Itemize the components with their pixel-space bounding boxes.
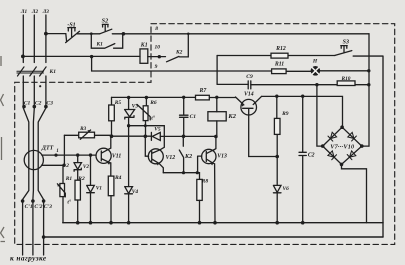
node V11 collector bbox=[110, 134, 114, 138]
svg-text:R5: R5 bbox=[114, 100, 122, 106]
svg-text:V4: V4 bbox=[132, 189, 139, 195]
node rail V4 bbox=[127, 221, 131, 225]
svg-text:Л1: Л1 bbox=[20, 9, 28, 15]
resistor R12 bbox=[271, 53, 288, 58]
svg-text:R7: R7 bbox=[199, 88, 208, 94]
wire return rail to C'3 bbox=[44, 236, 383, 238]
node bridge left bbox=[321, 144, 325, 148]
node V12 base bbox=[144, 135, 148, 139]
wire common bottom rail bbox=[63, 222, 383, 224]
node K1-holding right bbox=[122, 32, 126, 36]
resistor R8 bbox=[197, 179, 202, 200]
transistor V12 bbox=[148, 149, 163, 164]
svg-text:R8: R8 bbox=[201, 178, 209, 184]
node C2 top bbox=[301, 95, 304, 98]
svg-text:К2: К2 bbox=[184, 154, 192, 160]
node V13 base bbox=[196, 171, 199, 174]
right vertical x=368.5 bbox=[368, 34, 370, 146]
node K1-coil / K2-aux bbox=[158, 55, 161, 58]
node C1 top bbox=[182, 96, 185, 99]
diode V1 bbox=[87, 155, 95, 223]
S3 NO pushbutton bbox=[335, 46, 352, 56]
svg-text:R3: R3 bbox=[80, 126, 86, 132]
svg-text:С'2: С'2 bbox=[34, 204, 42, 210]
svg-text:К1: К1 bbox=[140, 42, 148, 48]
node K2 contact bottom bbox=[182, 171, 185, 174]
svg-text:V6: V6 bbox=[283, 186, 290, 192]
svg-text:R6: R6 bbox=[149, 100, 157, 106]
svg-text:R11: R11 bbox=[274, 62, 284, 68]
diode V6 bbox=[273, 157, 281, 223]
contactor K1 blades bbox=[18, 67, 47, 76]
lamp H bbox=[311, 66, 321, 76]
resistor R5 bbox=[111, 97, 113, 136]
svg-text:С1: С1 bbox=[24, 100, 31, 106]
node R6 bottom cross bbox=[144, 124, 147, 127]
svg-text:V7···V10: V7···V10 bbox=[330, 143, 354, 150]
line L1 bbox=[23, 15, 29, 255]
resistor R10 bbox=[337, 81, 355, 86]
node V14 base / R9 / V6 bbox=[275, 155, 279, 159]
node R6 top bbox=[145, 96, 148, 99]
node R9 top bbox=[275, 95, 278, 98]
node rail V13 emitter bbox=[213, 221, 217, 225]
svg-text:Н: Н bbox=[312, 58, 318, 64]
svg-text:V2: V2 bbox=[83, 164, 89, 170]
bridge left link bbox=[317, 85, 323, 146]
R3 left drop to terminal 2 bbox=[63, 135, 65, 165]
contact K2 mid bbox=[179, 136, 183, 172]
svg-text:1: 1 bbox=[56, 149, 59, 154]
node L3 tap bbox=[44, 32, 48, 36]
transistor V11 bbox=[96, 148, 111, 163]
node A link bbox=[129, 126, 165, 150]
contact K2 aux bbox=[167, 34, 189, 62]
resistor R7 bbox=[196, 95, 210, 100]
node R10 wire end bbox=[367, 83, 370, 86]
diode bridge V7..V10 bbox=[323, 127, 362, 164]
S2 NO pushbutton bbox=[100, 24, 112, 33]
node C9 wire / bridge link bbox=[315, 83, 318, 86]
svg-text:С1: С1 bbox=[190, 114, 197, 120]
relay coil K2 bbox=[216, 97, 218, 136]
node V3 top bbox=[127, 96, 130, 99]
svg-text:R1: R1 bbox=[65, 176, 73, 182]
svg-text:ДТТ: ДТТ bbox=[41, 145, 54, 151]
relay coil K1 bbox=[140, 49, 148, 63]
svg-text:Л3: Л3 bbox=[42, 9, 50, 15]
svg-text:V12: V12 bbox=[166, 155, 176, 161]
svg-text:V14: V14 bbox=[244, 91, 254, 97]
node bridge right bbox=[360, 144, 364, 148]
node rail V6 bbox=[275, 221, 279, 225]
node K1-holding left bbox=[90, 32, 93, 35]
rheostat R3 bbox=[64, 134, 111, 136]
wire 8 row to R12,S3 bbox=[217, 55, 335, 57]
svg-text:С2: С2 bbox=[308, 153, 315, 159]
svg-text:2: 2 bbox=[65, 163, 69, 169]
rheostat R6 bbox=[145, 98, 148, 137]
vertical x=217 link bbox=[216, 56, 218, 85]
svg-text:R12: R12 bbox=[275, 46, 286, 52]
node rail2 C'3 bbox=[42, 235, 46, 239]
svg-text:-S1: -S1 bbox=[67, 23, 75, 29]
wire 9 branch bbox=[92, 57, 369, 72]
speck artifact bbox=[39, 85, 41, 87]
svg-text:К1: К1 bbox=[95, 42, 103, 48]
top rail y=97.4 bbox=[112, 96, 236, 98]
svg-text:10: 10 bbox=[154, 45, 160, 51]
node bridge bottom bbox=[340, 163, 344, 167]
node K2-coil top bbox=[215, 96, 218, 99]
node rail V1 bbox=[89, 221, 93, 225]
svg-text:V13: V13 bbox=[217, 154, 227, 160]
node rail R2 bbox=[76, 221, 80, 225]
svg-text:V1: V1 bbox=[96, 186, 103, 192]
svg-text:к нагрузке: к нагрузке bbox=[10, 253, 47, 262]
bridge diode TL bbox=[328, 132, 337, 141]
node V2 top bbox=[76, 153, 79, 156]
transistor V13 bbox=[202, 149, 216, 163]
V4 line with diode bbox=[125, 125, 133, 222]
line L3 bbox=[38, 15, 46, 255]
svg-text:К1: К1 bbox=[49, 69, 57, 75]
dashed enclosure boundary bbox=[15, 24, 395, 245]
capacitor C9 bbox=[248, 81, 251, 89]
zener V2 bbox=[74, 155, 82, 180]
bridge diode BR bbox=[347, 151, 356, 160]
wire2 from DTT bbox=[42, 164, 65, 166]
zener V3 bbox=[125, 98, 135, 126]
svg-text:R9: R9 bbox=[281, 111, 289, 117]
node rail R8 bbox=[198, 221, 202, 225]
svg-text:С9: С9 bbox=[246, 74, 253, 80]
capacitor C2 bbox=[299, 96, 306, 223]
left edge scan artifacts bbox=[1, 56, 6, 242]
node bridge top bbox=[340, 125, 344, 129]
bridge diode BL bbox=[328, 151, 337, 160]
node L1 tap bbox=[21, 55, 25, 59]
K2 coil to V13 collector bbox=[214, 137, 216, 150]
svg-text:S3: S3 bbox=[343, 40, 349, 46]
svg-text:С'1: С'1 bbox=[25, 204, 33, 210]
resistor R11 bbox=[272, 69, 287, 74]
S1 NC pushbutton bbox=[66, 28, 80, 43]
svg-text:С'3: С'3 bbox=[44, 204, 52, 210]
bridge diode TR bbox=[348, 132, 357, 141]
node C'1 bbox=[21, 199, 25, 203]
node C1 cap tap bbox=[22, 105, 26, 109]
node wire-9 tap bbox=[90, 55, 93, 58]
svg-text:V3: V3 bbox=[132, 103, 139, 109]
K1 holding contact branch bbox=[91, 34, 122, 48]
svg-text:С3: С3 bbox=[46, 100, 53, 106]
svg-text:R4: R4 bbox=[114, 175, 122, 181]
node A bbox=[127, 124, 130, 127]
svg-text:V11: V11 bbox=[112, 154, 121, 160]
node C'2 bbox=[31, 199, 35, 203]
capacitor C1 bbox=[180, 97, 189, 136]
svg-text:8: 8 bbox=[155, 26, 158, 32]
node terminal 2 bbox=[62, 164, 65, 167]
node C1 bottom / K2 contact bbox=[182, 135, 186, 139]
node V1 top bbox=[89, 153, 92, 156]
node rail C2 bbox=[301, 221, 305, 225]
R1 chain from terminal 2 bbox=[62, 165, 64, 223]
node C2 cap tap bbox=[33, 105, 37, 109]
node terminal 1 bbox=[54, 154, 57, 157]
wire y=56.5 from L1 to K1 coil bbox=[23, 55, 166, 57]
resistor R2 bbox=[75, 180, 80, 200]
svg-text:V5: V5 bbox=[154, 127, 161, 133]
svg-text:Л2: Л2 bbox=[31, 9, 39, 15]
node V13 collector bbox=[214, 135, 218, 139]
node C'3 bbox=[42, 199, 46, 203]
svg-text:R10: R10 bbox=[341, 76, 351, 82]
resistor R9 bbox=[276, 96, 278, 156]
svg-text:R2: R2 bbox=[77, 176, 85, 182]
node rail R4 bbox=[109, 221, 113, 225]
node C3 cap tap bbox=[44, 105, 48, 109]
wire1 from DTT bbox=[42, 154, 96, 156]
contactor K1 linkage bbox=[17, 71, 44, 73]
svg-text:С2: С2 bbox=[35, 100, 42, 106]
resistor R4 bbox=[108, 176, 114, 196]
current transformer DTT circle bbox=[24, 150, 43, 169]
wire y=33.8 from L3 to S1,S2,right bbox=[46, 33, 369, 35]
mid wire y=136.3 bbox=[112, 135, 216, 137]
transistor V14 bbox=[241, 99, 257, 115]
diode V5 bbox=[151, 132, 160, 140]
wire C9 row bbox=[217, 83, 368, 85]
line L2 bbox=[33, 15, 34, 255]
node lamp wire end bbox=[367, 69, 370, 72]
svg-text:9: 9 bbox=[155, 64, 158, 70]
svg-text:К2: К2 bbox=[175, 50, 183, 56]
rail right of V14 to bridge top bbox=[262, 96, 343, 127]
emitter wire y=172.7 bbox=[163, 173, 199, 180]
svg-text:S2: S2 bbox=[102, 18, 109, 25]
svg-text:К2: К2 bbox=[227, 113, 236, 120]
node K2-aux riser bbox=[187, 33, 190, 36]
